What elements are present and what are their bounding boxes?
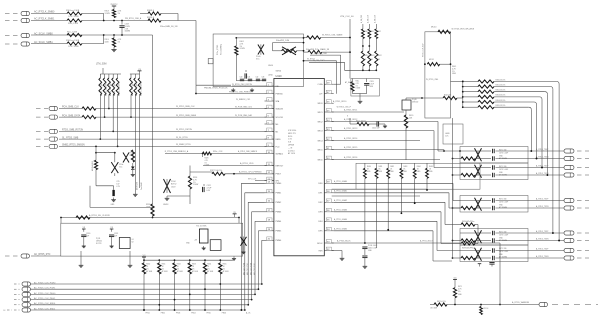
net label A_RTD5_TX3P (536, 230, 549, 233)
diode D32 DNP (123, 153, 136, 163)
svg-text:3VRTC: 3VRTC (110, 4, 118, 6)
svg-text:R345_10K_RTD: R345_10K_RTD (132, 81, 134, 96)
svg-text:TMR: TMR (318, 250, 323, 252)
svg-text:A_RTD5_CM0_SMBCK: A_RTD5_CM0_SMBCK (238, 150, 258, 153)
wire (143, 274, 150, 315)
wire (332, 156, 440, 159)
svg-text:BZT52: BZT52 (171, 184, 176, 186)
svg-text:AT 10 M: AT 10 M (288, 152, 295, 155)
net label AC_RTD5_CLK_SSD0 (34, 302, 56, 305)
net stub J3 (5, 35, 19, 37)
wire (204, 274, 211, 315)
wire (31, 34, 153, 36)
svg-text:R455,33,5%: R455,33,5% (496, 105, 506, 107)
wire (454, 298, 456, 306)
svg-text:C473 1.0UF: C473 1.0UF (499, 251, 508, 253)
svg-text:W_SMBCK_CK1: W_SMBCK_CK1 (236, 99, 250, 101)
net label AC_RTD5_CLK_PCH0 (34, 281, 56, 284)
rotated net labels (243, 263, 256, 275)
net label A_RTD5_TX1P (536, 165, 549, 168)
svg-text:DIF2: DIF2 (318, 202, 322, 204)
svg-text:ABWvWvBH: ABWvWvBH (91, 161, 94, 171)
svg-text:R651: R651 (162, 264, 166, 266)
svg-text:GND3: GND3 (163, 204, 168, 206)
capacitor C49 (489, 263, 494, 267)
svg-text:0851 ITS: 0851 ITS (288, 133, 296, 135)
connector pin P3 (21, 33, 30, 37)
svg-text:PR01: PR01 (146, 313, 150, 315)
svg-text:R4xxWW_PCIe_WAKE_3N: R4xxWW_PCIe_WAKE_3N (306, 48, 330, 51)
svg-text:R452,33,5%: R452,33,5% (496, 90, 506, 92)
wire (332, 251, 342, 257)
resistor R301 (66, 10, 82, 18)
ic U410 left pins (265, 83, 285, 243)
svg-text:B32: B32 (378, 31, 381, 33)
capacitor CF3 (493, 231, 495, 243)
svg-text:A_RTD5_TX3P: A_RTD5_TX3P (536, 230, 549, 233)
svg-text:MC41: MC41 (429, 59, 434, 61)
ground (250, 88, 254, 92)
net label SL_RTD5_SMB (62, 137, 79, 139)
net stub M6 (3, 310, 20, 312)
capacitor CF0 (493, 149, 495, 161)
resistor RS2 (452, 206, 564, 209)
diode D40 DNP (256, 44, 264, 60)
connector pin T3a (564, 231, 574, 235)
wire (82, 14, 104, 21)
resistor R310 (147, 17, 161, 22)
resistor R412 (375, 51, 382, 70)
refdes U410 (276, 71, 283, 78)
resistor R320 (91, 153, 98, 171)
net stub K4 (36, 138, 48, 140)
wire (196, 85, 231, 89)
net label WAKE (512, 301, 530, 304)
connector pin T1a (564, 165, 574, 169)
connector pin T0a (564, 149, 574, 153)
wire (167, 189, 190, 204)
resistor RN30 (99, 74, 103, 96)
resistor RN42 (138, 74, 142, 96)
svg-text:1/16W: 1/16W (105, 13, 110, 15)
ground (241, 250, 245, 254)
wire (59, 137, 274, 139)
svg-text:SDPAD2: SDPAD2 (276, 152, 283, 155)
connector pin T2b (564, 206, 574, 210)
diode D31 DNP (111, 153, 123, 176)
svg-text:A_PTD5_MCLK: A_PTD5_MCLK (420, 240, 434, 243)
net label AC_SCLK_SMB1 (34, 41, 53, 44)
svg-text:DIF3: DIF3 (318, 212, 322, 214)
connector pin P4 (21, 42, 30, 46)
wire (202, 154, 204, 158)
svg-text:PD40: PD40 (256, 56, 261, 58)
wire (310, 53, 341, 84)
svg-text:DIF0: DIF0 (318, 183, 322, 185)
svg-text:R411: R411 (371, 55, 375, 57)
net label r4 (344, 109, 357, 112)
svg-text:R481: R481 (379, 166, 383, 168)
ground (363, 264, 368, 268)
box aux (443, 124, 463, 144)
svg-text:R4WvW2xPF0w: R4WvW2xPF0w (462, 247, 475, 249)
wire (59, 144, 274, 146)
net label SMB2_RTD5_SMB3N (62, 145, 85, 147)
wire (31, 299, 252, 301)
wire (31, 309, 245, 311)
node H (424, 63, 451, 65)
wire (31, 288, 259, 290)
ground (133, 192, 138, 196)
node A2 (121, 34, 123, 36)
ic left pin labels (196, 84, 265, 181)
svg-text:GM10: GM10 (276, 71, 282, 73)
ground (111, 47, 116, 52)
wire (152, 216, 154, 218)
ground (231, 88, 235, 92)
wire (82, 20, 150, 22)
capacitor C422 (372, 121, 382, 129)
svg-text:A_RTD5_SRC5: A_RTD5_SRC5 (344, 146, 357, 149)
net stub (577, 168, 589, 176)
svg-text:PWRGD: PWRGD (276, 93, 284, 95)
wire (99, 95, 101, 140)
svg-text:1.8 4.7 R28B: 1.8 4.7 R28B (68, 46, 79, 48)
svg-text:DIF4: DIF4 (318, 221, 322, 223)
svg-text:SDA/CM: SDA/CM (276, 107, 284, 110)
capacitor C405 (364, 79, 375, 92)
svg-text:33: 33 (378, 59, 380, 61)
diode D50 DNP (241, 237, 247, 251)
svg-text:C331: C331 (114, 233, 118, 235)
svg-text:QFN48: QFN48 (288, 145, 294, 147)
capacitor CF1 (493, 165, 495, 177)
wire (235, 55, 237, 81)
svg-text:R421,33: R421,33 (444, 95, 451, 97)
net label r3 (333, 100, 346, 103)
svg-text:SRC4: SRC4 (317, 140, 322, 142)
svg-text:PM_RTD5_CM0_A: PM_RTD5_CM0_A (125, 17, 142, 20)
resistor R472 (480, 304, 490, 315)
bus staircase right (334, 180, 461, 261)
node D (95, 146, 116, 154)
svg-text:A_PTD5_GMA5: A_PTD5_GMA5 (334, 228, 347, 231)
svg-text:C473 1.0UF: C473 1.0UF (499, 152, 508, 154)
svg-text:PADD: PADD (276, 138, 282, 141)
connector pin T1b (564, 173, 574, 177)
svg-text:R327,100,5%: R327,100,5% (210, 170, 222, 172)
svg-text:SRC6: SRC6 (317, 159, 322, 161)
wire (203, 162, 274, 165)
wire (460, 232, 564, 234)
svg-text:B30: B30 (365, 31, 368, 33)
svg-text:C43: C43 (262, 77, 265, 79)
capacitor C322 (203, 184, 213, 192)
svg-text:R341_10K_RTD: R341_10K_RTD (106, 81, 108, 96)
svg-text:ABWvWv0: ABWvWv0 (136, 182, 139, 190)
wire (82, 35, 104, 44)
svg-text:R655: R655 (223, 264, 227, 266)
capacitor C460 (362, 247, 367, 255)
resistor RN34 (116, 74, 120, 96)
wire (434, 131, 460, 168)
svg-text:R654: R654 (207, 264, 211, 266)
ground (382, 124, 387, 128)
text F1 (499, 166, 508, 177)
net label CM0 (125, 17, 142, 20)
svg-text:R480: R480 (367, 166, 371, 168)
wire (443, 150, 445, 152)
capacitor C320 (112, 181, 120, 196)
svg-text:R347_10K_RTD: R347_10K_RTD (141, 81, 143, 96)
port tab (208, 59, 213, 64)
resistor R405 (351, 79, 361, 92)
svg-text:2N7002: 2N7002 (412, 102, 418, 104)
svg-text:GN10: GN10 (268, 65, 273, 67)
capacitor CX1 DNP (475, 165, 482, 178)
connector pin T2a (564, 198, 574, 202)
wire (332, 146, 444, 149)
net stub K3 (36, 130, 48, 132)
svg-text:1/16W: 1/16W (240, 48, 245, 50)
svg-text:PWM3: PWM3 (276, 212, 282, 214)
wire (61, 217, 239, 219)
wire (304, 37, 307, 39)
wire (332, 195, 420, 197)
net label MCLK32K (89, 214, 110, 217)
net stub (577, 251, 589, 259)
svg-text:C473 1.0UF: C473 1.0UF (499, 201, 508, 203)
wire (31, 255, 61, 257)
net label RTD3_SMB_RST3N (62, 130, 83, 132)
svg-text:C6V2: C6V2 (171, 186, 176, 188)
wire (460, 167, 564, 169)
wire (334, 81, 354, 84)
wire (219, 274, 226, 315)
resistor R401 (235, 38, 245, 55)
svg-text:R309 0: R309 0 (147, 10, 155, 12)
component U32 (210, 240, 221, 251)
resistor R306 (67, 32, 82, 37)
wire (96, 106, 274, 108)
wire (304, 51, 309, 53)
wire (440, 63, 451, 65)
wire (225, 173, 274, 175)
ic U410 (274, 79, 324, 256)
wire (59, 129, 274, 131)
svg-text:PR05: PR05 (207, 313, 211, 315)
wire (96, 146, 115, 152)
resistor RS1 (452, 173, 564, 176)
resistor RN32 (108, 74, 112, 96)
svg-text:A_RTD5_SRC0: A_RTD5_SRC0 (333, 100, 346, 103)
svg-text:SRC2: SRC2 (317, 121, 322, 123)
net stub M1 (14, 283, 20, 285)
ground (131, 173, 135, 177)
wire (96, 170, 114, 190)
box texts (186, 240, 198, 245)
svg-text:MC40: MC40 (431, 26, 437, 28)
wire (130, 95, 132, 118)
connector pin T4a (564, 248, 574, 252)
resistor R303 (105, 10, 122, 18)
connector pin Q5 (49, 144, 58, 148)
wire (61, 218, 239, 224)
resistor RN40 (130, 74, 134, 96)
net label wake atot (452, 28, 474, 31)
net label RTCRST (34, 253, 51, 256)
net label A_RTD5_TX4P (536, 248, 549, 251)
wire (152, 35, 154, 204)
wire (499, 243, 501, 305)
power flag (142, 255, 146, 260)
svg-text:R346_10K_RTD: R346_10K_RTD (136, 81, 138, 96)
svg-text:4.0X4.0: 4.0X4.0 (288, 150, 295, 152)
resistor RS4 (452, 256, 564, 259)
svg-text:A_RTD5_SRC4: A_RTD5_SRC4 (344, 137, 357, 140)
resistor R431 (427, 59, 439, 66)
wire (406, 97, 423, 99)
resistor R471 (453, 283, 462, 298)
svg-text:W_RTD5_WV0_WK_AT08: W_RTD5_WV0_WK_AT08 (452, 28, 474, 31)
capacitor C404 (256, 77, 261, 81)
svg-text:R653: R653 (192, 264, 196, 266)
resistor R311 (82, 107, 96, 110)
wire (189, 274, 196, 315)
wire (104, 95, 106, 118)
connector pin N5 (22, 303, 31, 307)
svg-text:R302vvv1.5KB: R302vvv1.5KB (66, 40, 80, 42)
resistor RB4 (203, 259, 213, 274)
wire (161, 14, 196, 21)
node I (364, 242, 366, 244)
net stub K5 (36, 145, 48, 147)
svg-text:AT_S0_CK: AT_S0_CK (345, 81, 354, 84)
resistor R410 (361, 51, 368, 70)
net label A_RTD5_TX4N (536, 255, 549, 258)
net label A_RTD5_TX2P (536, 198, 549, 201)
svg-text:1.8: 1.8 (3, 310, 5, 312)
svg-text:PR03: PR03 (176, 313, 180, 315)
svg-text:W_RTD5_CM0: W_RTD5_CM0 (426, 79, 438, 81)
svg-text:SOT23: SOT23 (96, 243, 101, 245)
wire (349, 19, 351, 79)
svg-text:PCIe_RTD3: PCIe_RTD3 (217, 45, 219, 55)
net label A_RTD5_TX1N (536, 172, 549, 175)
svg-text:R451,33,5%: R451,33,5% (496, 84, 506, 86)
svg-text:W_SL_RTD5: W_SL_RTD5 (176, 137, 189, 139)
power flag (233, 212, 237, 217)
svg-text:1608M: 1608M (125, 31, 131, 33)
wire (190, 166, 212, 173)
net label A_RTD5_TX2N (536, 205, 549, 208)
wire (165, 153, 203, 155)
svg-text:A_RTD5_TX3N: A_RTD5_TX3N (536, 238, 549, 241)
net stub J2 (5, 20, 19, 22)
ground flag (232, 257, 236, 261)
svg-text:REFOUT: REFOUT (276, 165, 285, 167)
svg-text:SRC3: SRC3 (317, 131, 322, 133)
svg-text:S2: S2 (132, 242, 134, 244)
resistor RB2 (173, 259, 183, 274)
svg-text:PWM5: PWM5 (276, 231, 282, 233)
transistor Q40 (402, 99, 418, 110)
connector pin Q2 (49, 115, 58, 119)
net label LTM_S0M (96, 64, 107, 66)
ferrite FB40 (360, 14, 368, 51)
wire (332, 118, 438, 121)
power +3V3 (138, 69, 142, 74)
bus vertical left (452, 118, 454, 258)
wire (31, 20, 67, 22)
svg-text:W_RTD5_CML_WAKE: W_RTD5_CML_WAKE (322, 34, 343, 37)
wire (255, 180, 274, 182)
ground (111, 198, 116, 207)
svg-text:PwvWvB0: PwvWvB0 (141, 182, 143, 190)
power +3V3_RTC (110, 4, 118, 10)
wire (96, 114, 274, 117)
svg-text:33: 33 (365, 59, 367, 61)
svg-text:A_RTD5_TX0N: A_RTD5_TX0N (536, 156, 549, 159)
svg-text:LTM_S0M: LTM_S0M (96, 64, 107, 66)
svg-text:A_PTD5_GMA0: A_PTD5_GMA0 (334, 180, 347, 183)
svg-text:M0: M0 (276, 124, 279, 126)
wire (108, 95, 110, 109)
resistor RB3 (188, 259, 198, 274)
wire (405, 98, 407, 115)
node E (60, 217, 240, 219)
svg-text:A_PTD5_GMA2: A_PTD5_GMA2 (334, 199, 347, 202)
ground (110, 244, 114, 248)
text F2 (499, 199, 508, 210)
svg-text:S0_CLKREQ: S0_CLKREQ (221, 43, 223, 55)
capacitor CF2 (493, 198, 495, 210)
wire (31, 293, 256, 295)
box right edge nodes (303, 42, 305, 52)
ground (358, 99, 363, 103)
wire (59, 108, 82, 110)
svg-text:1/16W: 1/16W (193, 184, 198, 186)
svg-text:A_RTD5_WAKE3N: A_RTD5_WAKE3N (512, 301, 530, 304)
svg-text:MCLK: MCLK (317, 243, 323, 245)
svg-text:PWM1: PWM1 (276, 193, 282, 195)
svg-text:33: 33 (371, 59, 373, 61)
svg-text:PR04: PR04 (191, 313, 195, 315)
filter box F1 (460, 147, 528, 164)
svg-text:A_PTD5_MCLK: A_PTD5_MCLK (337, 240, 351, 243)
net label PCIe WAKE (306, 48, 330, 51)
node cols (362, 45, 370, 47)
text F4 (499, 248, 508, 259)
resistor R422 (350, 121, 377, 126)
svg-text:SRC1: SRC1 (317, 112, 322, 114)
connector pin N1 (22, 282, 31, 286)
ground (82, 244, 86, 248)
net stub (577, 233, 589, 241)
bus vertical (462, 81, 464, 107)
crystal Y1 (196, 226, 208, 244)
text F3 (499, 232, 508, 243)
net label A_RTD5_TX3N (536, 238, 549, 241)
capacitor C402 (240, 77, 245, 81)
svg-text:R301vvv1.5KB: R301vvv1.5KB (66, 10, 80, 12)
svg-text:R484: R484 (417, 166, 421, 168)
refdes MC40 (431, 26, 437, 28)
rot text (423, 42, 425, 57)
svg-text:R_PTD5_CM0_SMBCLK_A: R_PTD5_CM0_SMBCLK_A (165, 150, 189, 153)
svg-text:PM10M_RTD5_PCIeCLK: PM10M_RTD5_PCIeCLK (204, 87, 228, 89)
svg-text:R3LL: R3LL (356, 81, 360, 83)
